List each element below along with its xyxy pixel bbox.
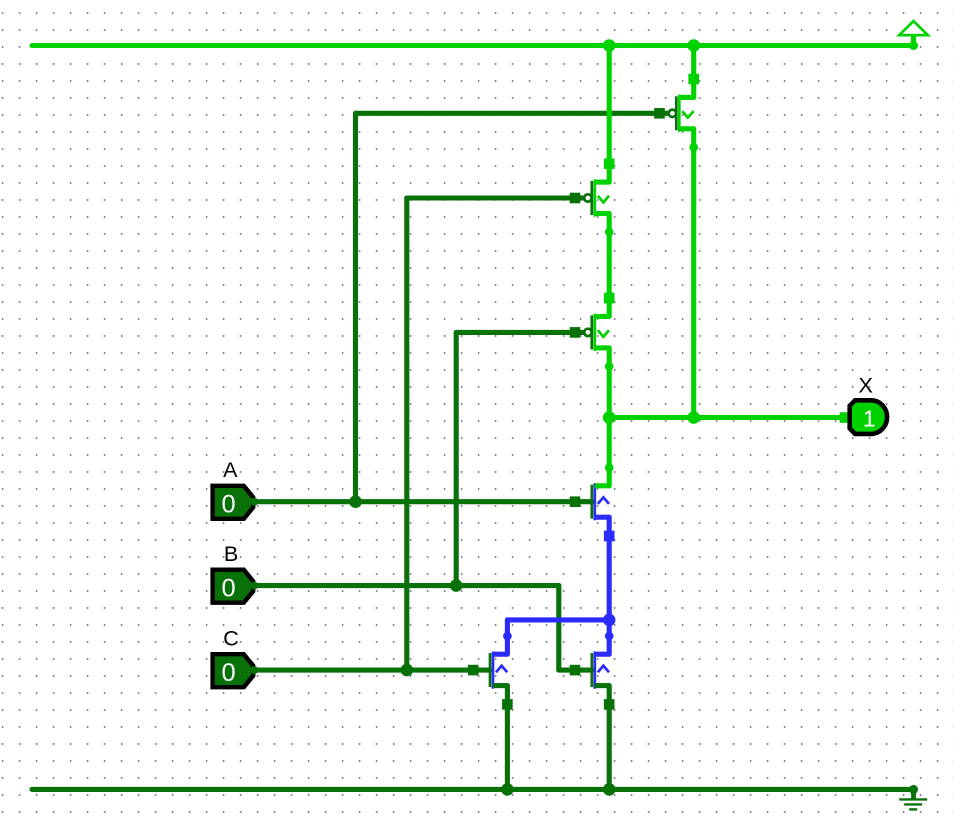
svg-text:0: 0 [221,491,235,519]
wire B corner drop [556,586,561,671]
wire Q2 drain to Q3 source [607,214,612,317]
wire node B row [254,583,559,588]
wire VDD top rail [32,43,914,48]
wire A riser [353,113,358,501]
wire C riser [404,198,409,670]
svg-text:X: X [859,373,873,397]
input pin B [213,570,259,603]
wire gate of Q3 from node B [456,330,584,335]
wire gate of Q1 from node A [356,111,669,116]
transistor Q1 (PMOS, gate A) [654,74,699,152]
junction ground / Q5 [501,783,514,796]
wire Q4 source down (floating) [607,517,612,620]
transistor Q2 (PMOS, gate C) [570,158,615,236]
wire B riser [454,332,459,585]
wire node A row [254,499,592,504]
wire ground bottom rail [32,787,914,792]
wire output row to pin X [609,415,846,420]
transistor Q3 (PMOS, gate B) [570,293,615,371]
wire VDD to Q2 source [607,46,612,183]
junction ground / Q6 [603,783,616,796]
junction output / Q3 drain [603,411,616,424]
junction VDD / Q2 branch [603,39,616,52]
wire Q1 drain to output node [691,129,696,418]
svg-text:B: B [224,542,238,566]
output pin X [840,400,887,434]
wire floating to Q5 drain [505,620,510,654]
junction node C [401,664,414,677]
svg-text:A: A [223,458,238,482]
power VDD symbol [899,21,928,50]
wire floating row [507,617,609,622]
svg-text:0: 0 [221,659,235,687]
junction VDD / Q1 branch [687,39,700,52]
svg-text:C: C [223,626,239,650]
input pin C [213,654,259,687]
wire floating to Q6 drain [607,620,612,654]
junction node B [450,579,463,592]
junction node A [349,495,362,508]
wire Q6 source to ground [607,686,612,790]
junction floating node [603,614,616,627]
wire VDD to Q1 source [691,46,696,98]
input pin A [213,486,259,519]
wire node C row to gate of Q5 [254,668,490,673]
junction output / Q1 drain [687,411,700,424]
wire Q3 drain to output node [607,348,612,418]
wire output node to Q4 drain [607,418,612,486]
svg-text:1: 1 [863,405,876,431]
transistor Q6 (NMOS, gate B) [570,632,615,710]
wire gate of Q2 from node C [407,195,584,200]
wire Q5 source to ground [505,686,510,790]
transistor Q4 (NMOS, gate A) [570,463,615,541]
wire B to gate of Q6 [559,668,592,673]
transistor Q5 (NMOS, gate C) [468,632,513,710]
svg-text:0: 0 [221,574,235,602]
ground symbol [899,785,927,810]
